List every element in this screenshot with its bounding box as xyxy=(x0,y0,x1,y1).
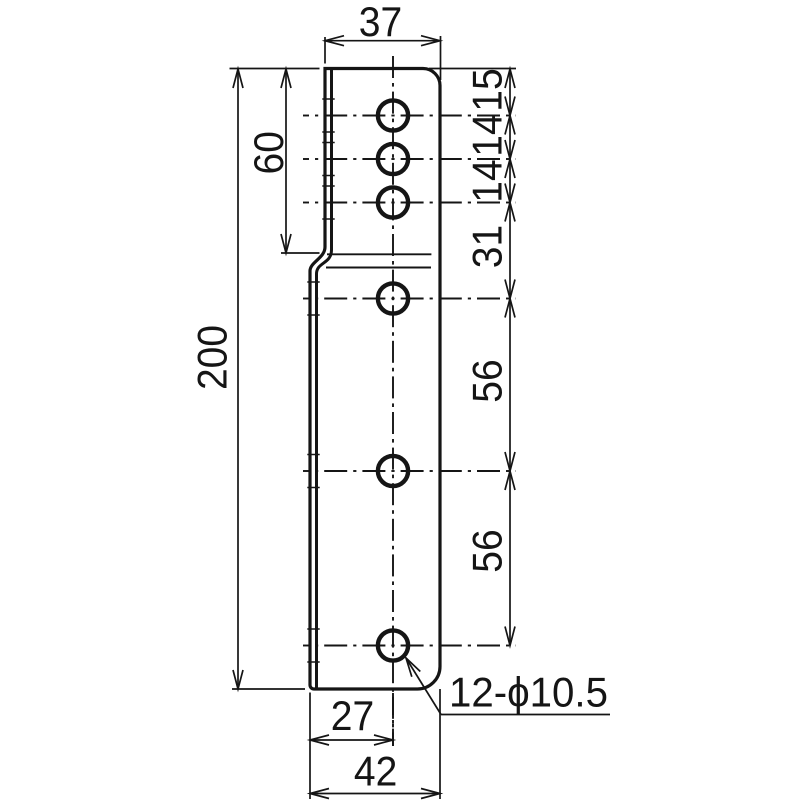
hole 1 centerline xyxy=(303,115,516,117)
svg-text:60: 60 xyxy=(245,131,292,174)
hole projection ticks on edge xyxy=(307,99,334,662)
hole 5 centerline xyxy=(303,470,516,472)
svg-text:31: 31 xyxy=(464,225,511,268)
hole 6 centerline xyxy=(303,645,516,647)
hole 6 circle xyxy=(378,630,408,660)
svg-text:12-ϕ10.5: 12-ϕ10.5 xyxy=(449,669,608,716)
svg-text:56: 56 xyxy=(464,359,511,402)
hole 2 centerline xyxy=(303,158,516,160)
plate outline xyxy=(310,69,440,690)
vertical centerline xyxy=(392,56,394,746)
dimension 200 overall height xyxy=(189,69,320,690)
bend line upper xyxy=(327,253,431,255)
bend line lower xyxy=(326,267,431,269)
svg-text:27: 27 xyxy=(331,692,374,739)
svg-text:200: 200 xyxy=(189,325,236,390)
hole 2 circle xyxy=(378,144,408,174)
chained dimensions 15 14 14 31 56 56 xyxy=(429,68,516,645)
hole 4 circle xyxy=(378,283,408,313)
svg-text:37: 37 xyxy=(359,0,402,45)
plate inner edge line xyxy=(317,70,332,688)
svg-text:56: 56 xyxy=(464,529,511,572)
svg-text:42: 42 xyxy=(354,748,397,795)
dimension 60 to bend xyxy=(245,69,320,253)
svg-text:14: 14 xyxy=(464,113,511,156)
hole 3 circle xyxy=(378,187,408,217)
svg-text:14: 14 xyxy=(464,159,511,202)
dimension 27 xyxy=(310,692,393,799)
leader 12-dia10.5 holes callout xyxy=(406,658,610,716)
hole 3 centerline xyxy=(303,202,516,204)
dimension 42 xyxy=(310,689,440,799)
svg-text:15: 15 xyxy=(464,68,511,111)
dimension 37 top width xyxy=(325,0,441,80)
hole 4 centerline xyxy=(303,298,516,300)
hole 5 circle xyxy=(378,456,408,486)
hole 1 circle xyxy=(378,100,408,130)
